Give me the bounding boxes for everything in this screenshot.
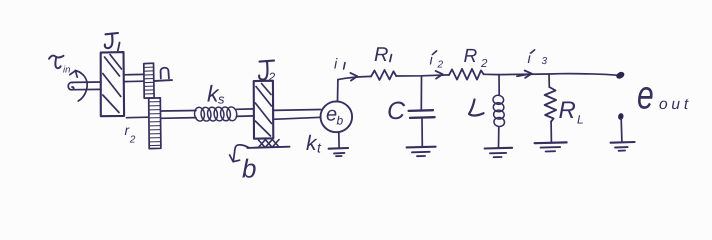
svg-text:R: R: [464, 46, 478, 67]
svg-text:L: L: [577, 113, 584, 127]
svg-text:2: 2: [268, 70, 276, 84]
svg-text:in: in: [63, 65, 70, 76]
svg-text:2: 2: [480, 58, 488, 70]
svg-text:3: 3: [542, 56, 548, 67]
svg-text:R: R: [374, 44, 388, 66]
svg-text:e: e: [637, 74, 654, 118]
svg-text:C: C: [387, 97, 406, 125]
svg-text:b: b: [337, 114, 344, 128]
svg-text:R: R: [559, 97, 576, 124]
svg-text:e: e: [326, 104, 337, 126]
svg-text:2: 2: [437, 60, 444, 71]
svg-text:2: 2: [129, 135, 136, 146]
svg-text:b: b: [242, 154, 256, 184]
svg-text:s: s: [218, 92, 225, 107]
svg-text:out: out: [659, 96, 692, 113]
